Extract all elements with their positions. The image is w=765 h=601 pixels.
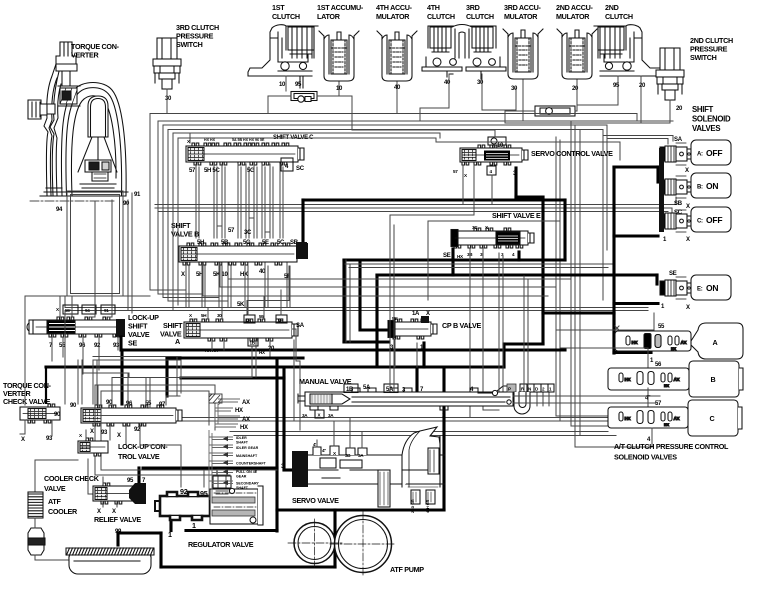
wire shift valve E drops (469, 248, 471, 418)
wire relief line (143, 466, 277, 469)
svg-text:CLUTCH: CLUTCH (605, 12, 633, 21)
wire shift C frame (154, 204, 156, 206)
svg-text:ATF PUMP: ATF PUMP (390, 565, 424, 574)
svg-text:SA: SA (296, 323, 305, 329)
wire solenoid feed vertical (612, 167, 615, 353)
wire 1st clutch 10 down (352, 130, 495, 137)
wire cooler-filter (35, 518, 72, 560)
svg-text:MULATOR: MULATOR (556, 12, 590, 21)
svg-text:SWITCH: SWITCH (176, 40, 203, 49)
svg-text:2ND GR: 2ND GR (411, 499, 415, 513)
pressure control solenoid C (688, 400, 738, 436)
svg-text:AX: AX (242, 417, 250, 423)
svg-text:5F: 5F (278, 318, 283, 323)
wire gray elbow pair (93, 357, 181, 405)
svg-text:X: X (426, 311, 430, 317)
svg-text:HX: HX (240, 425, 248, 431)
wire to A pressure control (543, 311, 614, 314)
svg-text:REGULATOR VALVE: REGULATOR VALVE (188, 540, 254, 549)
1st accumulator (319, 31, 359, 81)
wire long pair SC net (155, 204, 676, 206)
wire long pair lower (96, 417, 620, 419)
svg-text:HX: HX (240, 272, 248, 278)
wire lock-up control valve top (98, 374, 180, 405)
wire SHIFT VALVE E frame (428, 221, 560, 300)
svg-text:GEAR: GEAR (236, 475, 247, 479)
solenoid black connector column (659, 148, 664, 232)
svg-text:SE: SE (128, 339, 137, 348)
wire 90 91 (128, 193, 132, 250)
svg-text:ON: ON (706, 181, 718, 191)
svg-text:MULATOR: MULATOR (376, 12, 410, 21)
regulator piston assembly (210, 469, 263, 525)
wire long pair mid (65, 307, 648, 309)
svg-text:SA: SA (674, 137, 683, 143)
svg-text:HX HX: HX HX (204, 138, 216, 142)
svg-text:5A: 5A (363, 385, 371, 391)
svg-text:97: 97 (159, 402, 166, 408)
servo piston (402, 427, 440, 487)
svg-text:SE: SE (443, 253, 451, 259)
svg-text:SERVO CONTROL VALVE: SERVO CONTROL VALVE (531, 149, 613, 158)
wire 5K link (247, 266, 289, 315)
svg-text:40: 40 (444, 80, 451, 86)
wire inner frame around shift valves (173, 133, 440, 310)
svg-text:C: C (710, 414, 715, 423)
lock-up shift valve right black (116, 319, 125, 337)
frame around lock-up area (95, 385, 215, 475)
svg-text:OFF: OFF (706, 148, 722, 158)
manual valve 4 port lever (478, 386, 507, 396)
servo frame (275, 361, 278, 531)
svg-text:SHAFT: SHAFT (236, 441, 249, 445)
wire 1st clutch 10 (285, 76, 287, 91)
svg-text:SHIFT VALVE E: SHIFT VALVE E (492, 211, 541, 220)
svg-text:CLUTCH: CLUTCH (466, 12, 494, 21)
relief valve black cone (129, 483, 146, 504)
svg-text:1ST: 1ST (272, 3, 285, 12)
svg-text:1A: 1A (412, 311, 420, 317)
wire frame turns extended (150, 290, 227, 301)
svg-text:20: 20 (676, 106, 683, 112)
wire gray mid pair (345, 263, 612, 265)
svg-text:CP B VALVE: CP B VALVE (442, 321, 481, 330)
wire 56 (560, 348, 648, 421)
wire lock-up shift valve bottoms (52, 337, 118, 374)
svg-text:10: 10 (279, 82, 286, 88)
wire valve B port routes (203, 263, 548, 296)
svg-text:X: X (90, 429, 94, 435)
svg-text:SWITCH: SWITCH (690, 53, 717, 62)
svg-text:5C: 5C (277, 240, 285, 246)
svg-text:HX: HX (235, 408, 243, 414)
wire 1st clutch 95 (300, 76, 303, 88)
svg-text:91: 91 (134, 192, 141, 198)
wire SA to solenoid A (603, 136, 673, 145)
svg-text:A:: A: (697, 152, 703, 158)
svg-text:30: 30 (511, 86, 518, 92)
svg-text:5H: 5H (197, 240, 204, 246)
wire shift valve C drop lines (195, 164, 197, 238)
svg-text:30: 30 (477, 80, 484, 86)
svg-text:10: 10 (497, 143, 504, 149)
svg-text:93: 93 (101, 430, 108, 436)
svg-text:X: X (686, 204, 690, 210)
wire from check ball (268, 96, 352, 130)
svg-text:55': 55' (65, 308, 71, 313)
wire regulator 95 (204, 470, 277, 487)
wire tcc valve (25, 296, 67, 405)
svg-text:CLUTCH: CLUTCH (427, 12, 455, 21)
ATF strainer filter (28, 528, 45, 555)
1st clutch (248, 25, 318, 76)
manual valve detent PRND21 (507, 384, 554, 414)
torque converter body tank (67, 191, 123, 296)
wire verticals to pressure control valves (556, 137, 620, 416)
svg-text:X: X (181, 272, 185, 278)
svg-text:VERTER: VERTER (71, 51, 99, 60)
svg-text:CLUTCH: CLUTCH (272, 12, 300, 21)
wire servo control drops (462, 165, 464, 205)
svg-text:COOLER CHECK: COOLER CHECK (44, 474, 100, 483)
svg-text:5K: 5K (237, 302, 245, 308)
svg-text:4'': 4'' (322, 448, 326, 453)
svg-text:MAINSHAFT: MAINSHAFT (236, 454, 258, 458)
svg-text:55: 55 (658, 324, 665, 330)
svg-text:95: 95 (200, 489, 208, 498)
svg-text:5K 10: 5K 10 (213, 272, 228, 278)
svg-text:30: 30 (165, 96, 172, 102)
2nd clutch (594, 25, 664, 76)
node SB junction (296, 243, 308, 259)
wire shift valve B drops (185, 263, 187, 308)
wire 1st accumulator (338, 82, 340, 96)
svg-text:4TH: 4TH (427, 3, 440, 12)
svg-text:2ND ACCU-: 2ND ACCU- (556, 3, 593, 12)
svg-text:90: 90 (123, 201, 130, 207)
wire servo control valve area lines (462, 204, 464, 206)
wire bottom frame of middle block (65, 296, 180, 301)
svg-text:SE: SE (669, 271, 677, 277)
wire 55 feed pair (146, 378, 150, 409)
svg-text:5E: 5E (262, 240, 269, 246)
svg-text:ATF: ATF (48, 497, 61, 506)
svg-text:57: 57 (189, 168, 196, 174)
node SB black (296, 242, 307, 259)
wire TC to lock-up shift valve (60, 200, 112, 317)
lubrication taps (209, 430, 212, 500)
svg-text:AX: AX (242, 400, 250, 406)
svg-text:HX: HX (671, 347, 677, 351)
svg-text:1B: 1B (346, 387, 354, 393)
svg-text:VALVE: VALVE (44, 484, 66, 493)
svg-text:MULATOR: MULATOR (504, 12, 538, 21)
wire cooler check to relief (88, 459, 93, 494)
wire shift valve C top X (189, 133, 191, 143)
wire main line pressure (303, 198, 565, 201)
svg-text:94: 94 (56, 207, 63, 213)
check ball valve node 10 (291, 92, 317, 103)
wire jog segments (217, 218, 270, 232)
svg-text:91: 91 (104, 308, 109, 313)
svg-text:CHECK VALVE: CHECK VALVE (3, 397, 51, 406)
svg-text:SOLENOID: SOLENOID (692, 115, 731, 124)
svg-text:94: 94 (85, 308, 90, 313)
pressure control solenoid A (691, 323, 743, 359)
svg-text:HX: HX (664, 384, 670, 388)
svg-text:57: 57 (228, 228, 235, 234)
lock-up area frame right side (95, 385, 230, 475)
solenoid valve B (660, 176, 691, 198)
svg-text:SERVO VALVE: SERVO VALVE (292, 496, 339, 505)
svg-text:20: 20 (639, 83, 646, 89)
wire bus left bottom turns (150, 289, 180, 291)
wire lock-up 96 line (83, 346, 252, 378)
svg-text:X: X (685, 168, 689, 174)
wire left descent (64, 311, 66, 405)
wire SA (292, 329, 300, 430)
wire drop 3rd accu to bus (420, 118, 601, 121)
svg-text:A/T CLUTCH PRESSURE CONTROL: A/T CLUTCH PRESSURE CONTROL (614, 442, 729, 451)
pressure control solenoid B (689, 361, 739, 397)
svg-text:3C: 3C (244, 230, 252, 236)
wire manual valve to right frames (513, 396, 660, 403)
wire 2nd clutch 95 (577, 76, 618, 105)
svg-text:3RD: 3RD (466, 3, 480, 12)
svg-text:5H 5C: 5H 5C (204, 168, 220, 174)
svg-text:LATOR: LATOR (317, 12, 341, 21)
wire right inner frames (436, 142, 620, 160)
wire manual valve 1 main (442, 367, 445, 510)
svg-text:IDLER GEAR: IDLER GEAR (236, 446, 259, 450)
svg-text:93: 93 (113, 343, 120, 349)
svg-text:4': 4' (313, 442, 316, 447)
wire regulator to frame (169, 516, 172, 531)
svg-text:X: X (97, 509, 101, 515)
svg-text:SECONDARY: SECONDARY (236, 482, 259, 486)
svg-text:TROL VALVE: TROL VALVE (118, 452, 160, 461)
svg-text:99: 99 (115, 529, 122, 535)
svg-text:P: P (508, 387, 511, 392)
wire 2nd accumulator (576, 80, 578, 111)
svg-text:ON: ON (706, 283, 718, 293)
svg-text:X: X (21, 437, 25, 443)
wire 4th accumulator (396, 82, 398, 114)
svg-text:3RD ACCU-: 3RD ACCU- (504, 3, 541, 12)
svg-text:90: 90 (70, 403, 77, 409)
svg-text:90: 90 (54, 412, 61, 418)
svg-text:95: 95 (295, 82, 302, 88)
svg-text:5B: 5B (221, 240, 229, 246)
svg-text:X: X (117, 433, 121, 439)
2nd accumulator (557, 29, 597, 79)
svg-text:93: 93 (46, 436, 53, 442)
oil pan (66, 548, 154, 574)
3rd accumulator (503, 29, 543, 79)
wire 55 (556, 313, 654, 330)
svg-text:B: B (711, 375, 716, 384)
svg-text:92: 92 (94, 343, 101, 349)
wire SE line (377, 273, 657, 276)
4th clutch and 3rd clutch pair (422, 25, 506, 80)
wire bus right ends (636, 114, 638, 122)
wire from CP B drops (395, 339, 417, 367)
svg-text:95: 95 (613, 83, 620, 89)
wire 3-prime to servo (282, 367, 285, 470)
svg-text:1: 1 (192, 521, 196, 530)
wire shift valve A top drops (208, 290, 281, 319)
wire from 3rd clutch pressure switch (166, 89, 168, 114)
wire mid area verticals (499, 253, 503, 391)
wire 3rd clutch 30 (482, 74, 516, 110)
svg-text:PULL ON 4E: PULL ON 4E (236, 470, 258, 474)
svg-text:SOLENOID VALVES: SOLENOID VALVES (614, 453, 677, 462)
check ball valve 2nd accumulator (535, 106, 575, 116)
wire 57 (575, 388, 652, 447)
wire 10 from top (494, 145, 496, 148)
ATF pump (288, 511, 396, 577)
svg-text:E:: E: (697, 287, 703, 293)
svg-text:20: 20 (572, 86, 579, 92)
2nd clutch pressure switch (656, 48, 684, 100)
svg-text:56: 56 (655, 362, 662, 368)
svg-text:HX: HX (664, 423, 670, 427)
svg-text:1ST ACCUMU-: 1ST ACCUMU- (317, 3, 364, 12)
wire manual valve 7 (415, 367, 418, 392)
wire relief ports (103, 477, 117, 507)
wire long verticals center (390, 221, 394, 391)
svg-text:20: 20 (268, 346, 275, 352)
svg-text:VALVES: VALVES (692, 124, 720, 133)
4th accumulator (377, 31, 417, 81)
svg-text:10: 10 (336, 86, 343, 92)
svg-text:5G: 5G (243, 240, 251, 246)
servo small indicators (408, 487, 438, 504)
svg-text:1: 1 (168, 530, 172, 539)
svg-text:SHIFT: SHIFT (692, 105, 714, 114)
svg-text:4TH GR: 4TH GR (426, 499, 430, 513)
svg-text:SC: SC (296, 166, 305, 172)
wire servo control valve 3 (514, 168, 517, 197)
torque converter (28, 42, 128, 201)
svg-text:95: 95 (127, 478, 134, 484)
svg-text:A: A (175, 337, 180, 346)
wire bus left verticals (149, 114, 151, 291)
svg-text:COUNTERSHAFT: COUNTERSHAFT (236, 462, 267, 466)
wire 4th clutch 40 (420, 74, 449, 121)
hatched vent (209, 394, 222, 403)
wire 2nd accu check (505, 105, 577, 121)
svg-text:SHAFT: SHAFT (236, 486, 249, 490)
svg-text:RELIEF VALVE: RELIEF VALVE (94, 515, 141, 524)
svg-text:C:: C: (697, 219, 703, 225)
wire 3rd accumulator (522, 80, 524, 121)
wire servo top ports (317, 418, 362, 449)
check ball 10 (488, 137, 506, 145)
svg-text:A: A (713, 338, 718, 347)
wire lock-up control valve bottom (95, 423, 181, 487)
svg-text:92: 92 (180, 487, 188, 496)
wire pump suction (333, 510, 336, 567)
svg-text:OFF: OFF (706, 215, 722, 225)
svg-text:B:: B: (697, 185, 703, 191)
svg-text:57: 57 (453, 169, 458, 174)
svg-text:55': 55' (392, 316, 398, 321)
wire shift valve A bottom (212, 339, 270, 377)
svg-text:4TH ACCU-: 4TH ACCU- (376, 3, 413, 12)
wire 2nd clutch pressure switch (669, 100, 671, 123)
svg-text:30: 30 (217, 313, 222, 318)
svg-text:5A 5B HX HX 96 5E: 5A 5B HX HX 96 5E (232, 138, 265, 142)
svg-text:COOLER: COOLER (48, 507, 78, 516)
wire heavy mid-left (122, 348, 565, 351)
wire cooler check (35, 430, 86, 492)
wire main bus lines top (150, 113, 637, 115)
svg-text:X: X (686, 237, 690, 243)
svg-text:SB: SB (674, 201, 683, 207)
svg-text:57: 57 (655, 401, 662, 407)
3rd clutch pressure switch (153, 38, 181, 89)
svg-text:40: 40 (394, 85, 401, 91)
svg-text:VALVE B: VALVE B (171, 230, 199, 239)
svg-text:2ND: 2ND (605, 3, 619, 12)
svg-text:96: 96 (126, 401, 133, 407)
svg-text:X: X (686, 305, 690, 311)
wire 2nd clutch 20 (640, 76, 642, 123)
svg-text:IDLER: IDLER (236, 436, 247, 440)
svg-text:X: X (112, 509, 116, 515)
wire to CP B left (360, 262, 388, 330)
